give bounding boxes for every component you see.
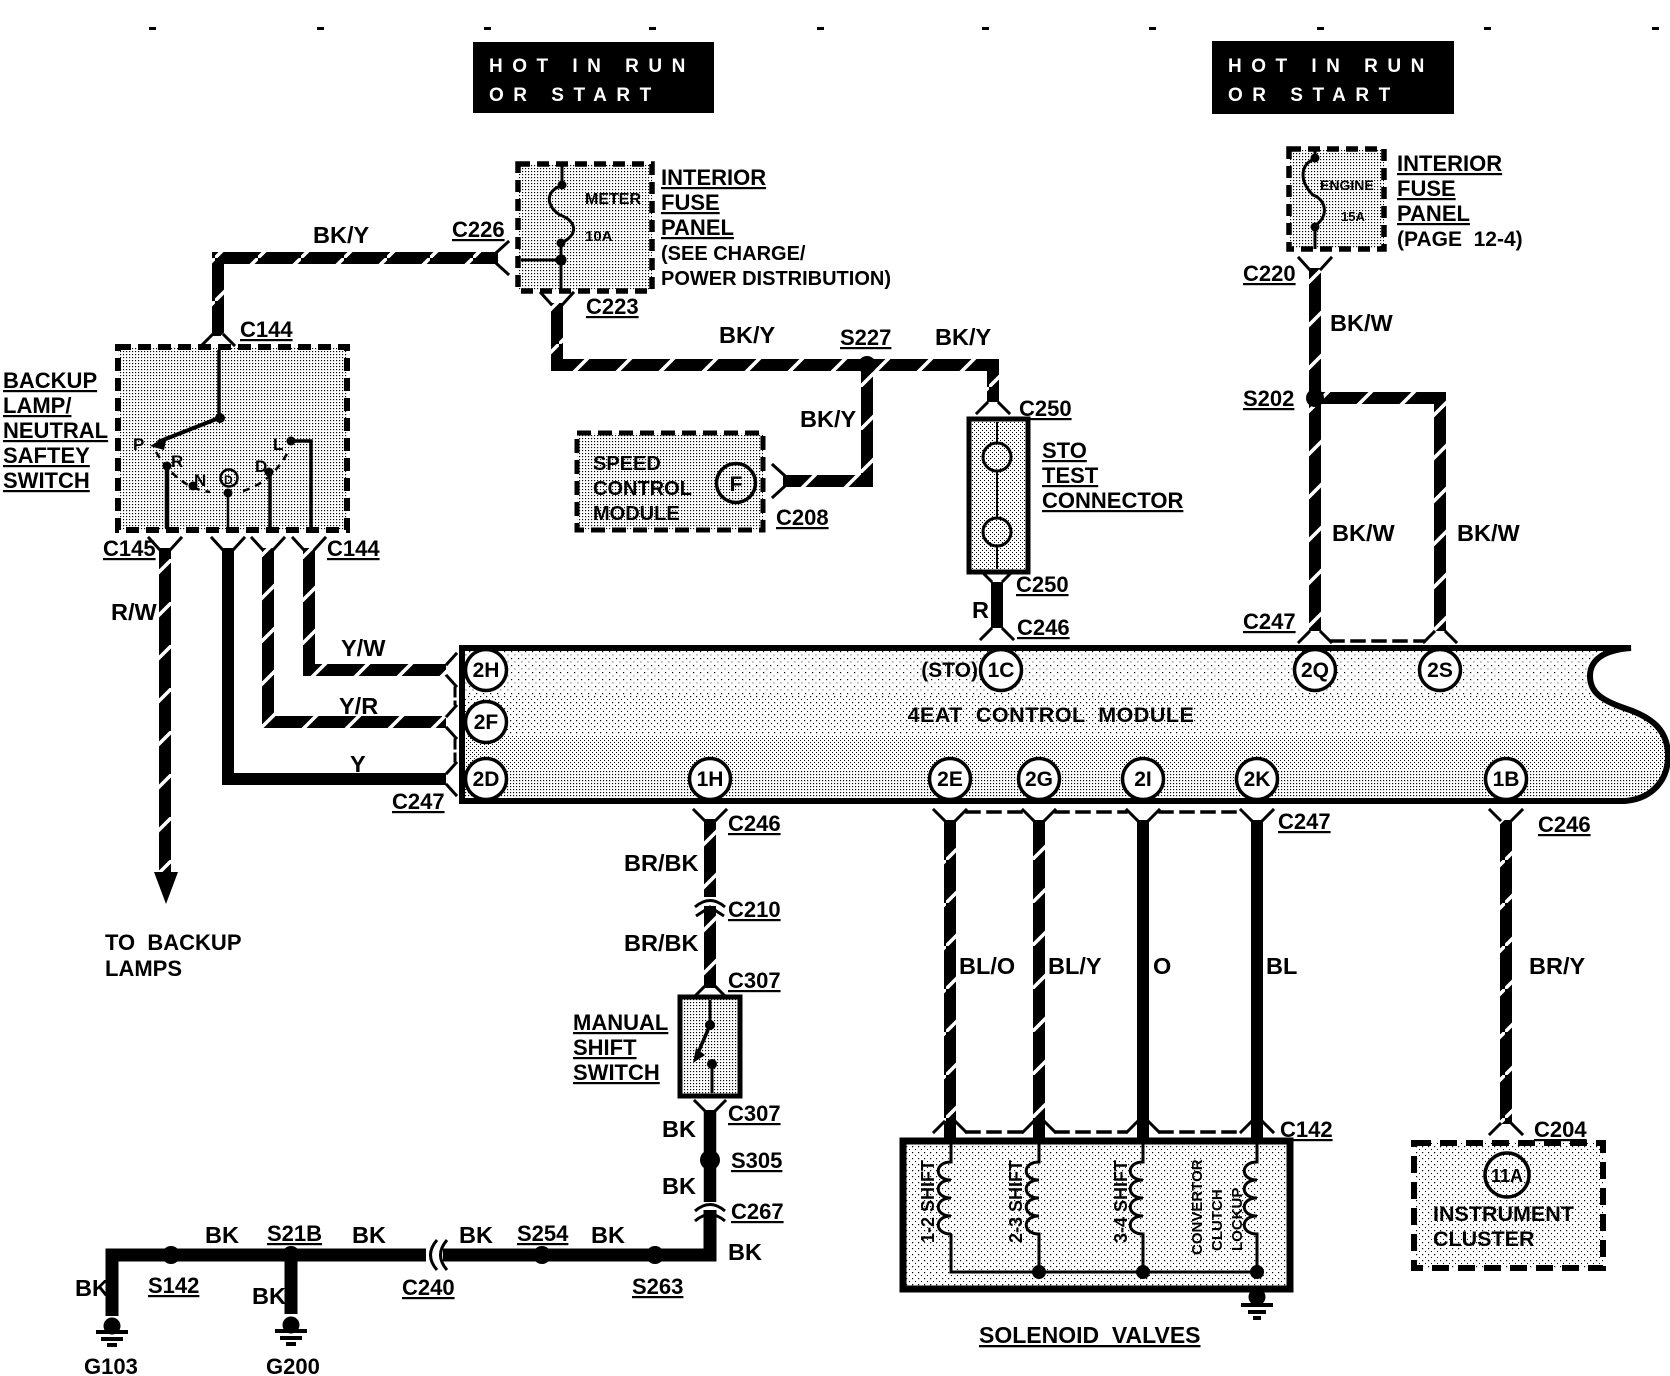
svg-text:C247: C247: [1278, 809, 1331, 834]
svg-text:BK/Y: BK/Y: [313, 222, 369, 248]
svg-text:SWITCH: SWITCH: [573, 1060, 660, 1085]
svg-text:FUSE: FUSE: [1397, 176, 1456, 201]
svg-text:P: P: [133, 435, 144, 454]
svg-text:BL/O: BL/O: [959, 953, 1015, 979]
break C210: [695, 897, 725, 916]
splice S263: [646, 1246, 664, 1264]
module U: 4EAT control module body: [456, 644, 1670, 805]
svg-text:2S: 2S: [1427, 659, 1453, 682]
svg-text:OR START: OR START: [489, 85, 661, 106]
svg-text:BK: BK: [352, 1222, 386, 1248]
svg-text:CONVERTOR: CONVERTOR: [1189, 1159, 1206, 1255]
ground G103: [96, 1318, 128, 1346]
solenoid coil 1-2 shift: [938, 1144, 951, 1234]
svg-text:SOLENOID VALVES: SOLENOID VALVES: [979, 1322, 1201, 1348]
svg-text:BL/Y: BL/Y: [1048, 953, 1102, 979]
svg-text:BK/Y: BK/Y: [800, 406, 856, 432]
connector 11A circle: [1485, 1153, 1529, 1197]
wire Y to 2D (solid): [228, 548, 446, 779]
svg-text:2F: 2F: [474, 711, 499, 734]
svg-text:1H: 1H: [697, 768, 724, 791]
svg-text:BK/Y: BK/Y: [719, 322, 775, 348]
switch internals: [150, 350, 311, 528]
svg-text:2D: 2D: [473, 768, 500, 791]
svg-text:HOT IN RUN: HOT IN RUN: [489, 56, 695, 77]
svg-text:SAFTEY: SAFTEY: [3, 443, 90, 468]
speed control module box: [577, 433, 763, 530]
svg-text:C267: C267: [731, 1199, 784, 1224]
svg-text:Y: Y: [350, 751, 366, 777]
svg-text:BK/W: BK/W: [1330, 310, 1393, 336]
svg-text:10A: 10A: [585, 228, 613, 245]
connectors C144 bottom whiskers x228 x268 x309: [212, 538, 244, 549]
wire R STO to 1C: [991, 582, 1003, 628]
svg-text:(SEE CHARGE/: (SEE CHARGE/: [661, 243, 806, 265]
svg-text:SWITCH: SWITCH: [3, 468, 90, 493]
svg-text:CLUTCH: CLUTCH: [1209, 1189, 1226, 1251]
svg-text:C246: C246: [1538, 812, 1591, 837]
connector C250 top whiskers: [977, 403, 1009, 413]
connector whiskers at 2S: [1424, 632, 1456, 642]
ground at solenoid valves: [1241, 1289, 1273, 1319]
svg-text:15A: 15A: [1341, 209, 1365, 224]
svg-text:G103: G103: [84, 1354, 138, 1376]
svg-text:BK: BK: [728, 1239, 762, 1265]
wire BR/Y 1B to C204 instrument cluster: [1500, 820, 1512, 1124]
svg-text:BR/Y: BR/Y: [1529, 953, 1585, 979]
svg-text:OR START: OR START: [1228, 85, 1400, 106]
svg-text:2K: 2K: [1244, 768, 1271, 791]
solenoid coil 3-4 shift: [1130, 1144, 1143, 1272]
ground G200: [275, 1317, 307, 1345]
svg-text:INTERIOR: INTERIOR: [661, 165, 766, 190]
svg-text:11A: 11A: [1491, 1166, 1523, 1186]
wire BK bottom run left segment to G103: [112, 1255, 426, 1316]
svg-text:BK: BK: [459, 1222, 493, 1248]
svg-text:C226: C226: [452, 217, 505, 242]
connector C247 whiskers at 2Q: [1299, 632, 1331, 642]
connector C204 whiskers at instrument cluster: [1490, 1124, 1522, 1134]
splice S305: [700, 1150, 720, 1170]
connector F circle: [717, 464, 756, 503]
svg-text:S254: S254: [517, 1221, 569, 1246]
interior fuse panel (left) box: [518, 164, 652, 291]
splice S142: [162, 1246, 180, 1264]
fuse engine 15A element: [1303, 149, 1324, 249]
svg-text:C246: C246: [1017, 615, 1070, 640]
svg-text:3-4 SHIFT: 3-4 SHIFT: [1111, 1160, 1131, 1243]
svg-text:MANUAL: MANUAL: [573, 1010, 668, 1035]
svg-text:METER: METER: [585, 191, 641, 208]
svg-text:BK/W: BK/W: [1332, 520, 1395, 546]
connector C250 bottom whiskers (R wire top): [981, 571, 1013, 581]
svg-text:C307: C307: [728, 1101, 781, 1126]
svg-text:D: D: [224, 473, 233, 487]
manual shift switch box: [680, 997, 740, 1096]
svg-text:TEST: TEST: [1042, 463, 1099, 488]
backup lamp / neutral safety switch box: [118, 347, 347, 530]
svg-text:C204: C204: [1534, 1117, 1587, 1142]
svg-text:C247: C247: [392, 789, 445, 814]
wire BR/BK 1H to C210: [704, 819, 716, 897]
wire BK C267 to bottom run: [443, 1210, 710, 1255]
svg-text:C220: C220: [1243, 261, 1296, 286]
svg-text:2G: 2G: [1025, 768, 1053, 791]
svg-text:F: F: [730, 473, 743, 496]
svg-text:NEUTRAL: NEUTRAL: [3, 418, 108, 443]
module left edge entry whiskers 2H 2F 2D: [447, 654, 456, 686]
svg-text:INSTRUMENT: INSTRUMENT: [1433, 1202, 1574, 1226]
svg-text:C223: C223: [586, 294, 639, 319]
svg-text:S202: S202: [1243, 386, 1294, 411]
wire Y/R to 2F: [268, 548, 446, 722]
svg-text:G200: G200: [266, 1354, 320, 1376]
svg-text:ENGINE: ENGINE: [1320, 177, 1374, 193]
svg-text:Y/W: Y/W: [341, 635, 386, 661]
break C240: [427, 1240, 447, 1270]
svg-text:C307: C307: [728, 968, 781, 993]
svg-text:R: R: [171, 452, 183, 471]
pin 2E: [930, 759, 971, 800]
svg-text:SPEED: SPEED: [593, 453, 661, 475]
svg-text:PANEL: PANEL: [1397, 201, 1470, 226]
splice S21B: [282, 1246, 300, 1264]
solenoid coil 2-3 shift: [1026, 1144, 1039, 1272]
dashed module left edge links: [454, 688, 457, 704]
svg-text:BK: BK: [205, 1222, 239, 1248]
connector C246 whiskers at 1C (R wire bottom): [981, 629, 1013, 639]
svg-text:N: N: [194, 471, 206, 490]
wire BK/W S202 branch to 2S: [1320, 398, 1440, 631]
svg-text:LAMP/: LAMP/: [3, 393, 71, 418]
svg-text:C144: C144: [240, 317, 293, 342]
svg-text:BK: BK: [591, 1222, 625, 1248]
svg-text:BR/BK: BR/BK: [624, 850, 698, 876]
wire BK/Y C223 to S227 to C250: [557, 303, 993, 402]
svg-text:BK: BK: [662, 1173, 696, 1199]
svg-text:S21B: S21B: [267, 1221, 322, 1246]
wire O 2I to solenoid: [1137, 820, 1149, 1141]
pin 2Q: [1295, 650, 1336, 691]
pin 2G: [1019, 759, 1060, 800]
pin 2K: [1237, 759, 1278, 800]
instrument cluster box: [1414, 1143, 1603, 1268]
pin 2D: [466, 759, 507, 800]
svg-text:R/W: R/W: [111, 599, 158, 625]
STO test connector box: [969, 419, 1028, 572]
svg-text:2Q: 2Q: [1301, 659, 1329, 682]
wire BK/Y C226 to C144: [218, 258, 498, 336]
solenoid coil convertor clutch lockup: [1244, 1144, 1257, 1272]
wire Y/W to 2H: [309, 548, 446, 670]
svg-text:BK/Y: BK/Y: [935, 324, 991, 350]
connector C246 whiskers at 1B: [1490, 810, 1522, 820]
svg-text:LAMPS: LAMPS: [105, 956, 182, 981]
svg-text:C246: C246: [728, 811, 781, 836]
connector C247 whiskers above solenoid wires: [934, 810, 966, 820]
connector C145 whiskers: [149, 538, 181, 549]
dashed harness links top C247 row: [967, 810, 1022, 814]
svg-text:CONNECTOR: CONNECTOR: [1042, 488, 1183, 513]
wire BK S21B to G200: [285, 1255, 298, 1314]
svg-text:BACKUP: BACKUP: [3, 368, 97, 393]
pin 2I: [1123, 759, 1164, 800]
svg-text:1-2 SHIFT: 1-2 SHIFT: [918, 1160, 938, 1243]
wire BK/W C220 to S202 to C247/2Q: [1309, 268, 1321, 631]
svg-text:Y/R: Y/R: [339, 693, 378, 719]
wire BL/O 2E to solenoid: [944, 820, 956, 1141]
svg-text:SHIFT: SHIFT: [573, 1035, 637, 1060]
svg-text:(PAGE 12-4): (PAGE 12-4): [1397, 228, 1523, 251]
common bus wire: [951, 1234, 1257, 1272]
arrow to backup lamps: [154, 872, 178, 904]
wire BK below manual shift switch to C267: [704, 1110, 717, 1202]
svg-text:S305: S305: [731, 1148, 782, 1173]
hot in run or start banner (left): [473, 42, 714, 113]
svg-text:C247: C247: [1243, 609, 1296, 634]
dashed link C247 to 2S: [1331, 639, 1424, 643]
svg-text:(STO): (STO): [921, 659, 978, 682]
connector C226 whiskers: [497, 242, 508, 274]
svg-text:S263: S263: [632, 1274, 683, 1299]
solenoid valves box: [903, 1141, 1290, 1289]
pin 2H: [466, 650, 507, 691]
svg-text:1C: 1C: [988, 659, 1015, 682]
svg-text:C250: C250: [1019, 396, 1072, 421]
wire BL/Y 2G to solenoid: [1033, 820, 1045, 1141]
svg-text:S142: S142: [148, 1273, 199, 1298]
pin 2S: [1420, 650, 1461, 691]
svg-text:FUSE: FUSE: [661, 190, 720, 215]
pin 1H: [690, 759, 731, 800]
svg-text:LOCKUP: LOCKUP: [1229, 1188, 1246, 1251]
wire BL 2K to solenoid: [1251, 820, 1263, 1141]
splice S254: [533, 1246, 551, 1264]
svg-text:D: D: [255, 457, 267, 476]
pin 2F: [466, 702, 507, 743]
svg-text:CLUSTER: CLUSTER: [1433, 1227, 1535, 1251]
svg-text:PANEL: PANEL: [661, 215, 734, 240]
pin 1B: [1486, 759, 1527, 800]
connector C142 whiskers at solenoid box: [934, 1122, 966, 1132]
svg-text:BK: BK: [75, 1275, 109, 1301]
svg-text:BL: BL: [1266, 953, 1297, 979]
svg-text:POWER DISTRIBUTION): POWER DISTRIBUTION): [661, 268, 891, 290]
svg-text:BK: BK: [252, 1283, 286, 1309]
wire BK/Y S227 to C208 speed control: [783, 365, 867, 481]
hot in run or start banner (right): [1212, 41, 1454, 114]
splice S227: [858, 356, 876, 374]
splice S202: [1306, 389, 1324, 407]
connector C223 whiskers: [541, 293, 573, 304]
svg-text:BK: BK: [662, 1116, 696, 1142]
wire BR/BK C210 to C307 manual shift switch: [704, 906, 716, 988]
svg-text:TO BACKUP: TO BACKUP: [105, 930, 242, 955]
svg-text:2E: 2E: [937, 768, 963, 791]
svg-text:4EAT CONTROL MODULE: 4EAT CONTROL MODULE: [908, 703, 1195, 727]
svg-text:C145: C145: [103, 536, 156, 561]
svg-text:2I: 2I: [1134, 768, 1152, 791]
svg-text:C142: C142: [1280, 1117, 1333, 1142]
fuse F meter 10A element: [521, 164, 574, 291]
connector C208 whiskers at speed control: [773, 465, 784, 497]
wire R/W C145 down to arrow: [159, 548, 171, 878]
interior fuse panel (right) box: [1289, 149, 1384, 249]
connector C144 top whiskers: [202, 335, 234, 345]
svg-text:C240: C240: [402, 1275, 455, 1300]
connector C307 whiskers into switch top: [695, 987, 725, 996]
svg-text:C250: C250: [1016, 572, 1069, 597]
svg-text:CONTROL: CONTROL: [593, 478, 692, 500]
svg-text:2-3 SHIFT: 2-3 SHIFT: [1006, 1160, 1026, 1243]
svg-text:2H: 2H: [473, 659, 500, 682]
connector C220 whiskers: [1299, 258, 1331, 269]
svg-text:L: L: [273, 435, 283, 454]
svg-text:R: R: [972, 597, 989, 623]
pin 1C with STO tag: [921, 650, 1021, 691]
connector C307 whiskers below switch: [695, 1101, 725, 1110]
break C267: [695, 1202, 725, 1221]
dashed harness links bottom C142 row: [967, 1130, 1022, 1134]
svg-text:STO: STO: [1042, 438, 1087, 463]
svg-text:S227: S227: [840, 325, 891, 350]
svg-text:O: O: [1153, 953, 1171, 979]
svg-text:MODULE: MODULE: [593, 503, 680, 525]
svg-text:HOT IN RUN: HOT IN RUN: [1228, 56, 1434, 77]
svg-text:BR/BK: BR/BK: [624, 930, 698, 956]
svg-text:C210: C210: [728, 897, 781, 922]
svg-text:C208: C208: [776, 505, 829, 530]
svg-text:BK/W: BK/W: [1457, 520, 1520, 546]
svg-text:C144: C144: [327, 536, 380, 561]
svg-text:1B: 1B: [1493, 768, 1520, 791]
svg-text:INTERIOR: INTERIOR: [1397, 151, 1502, 176]
connector C246 whiskers at 1H: [694, 810, 726, 820]
